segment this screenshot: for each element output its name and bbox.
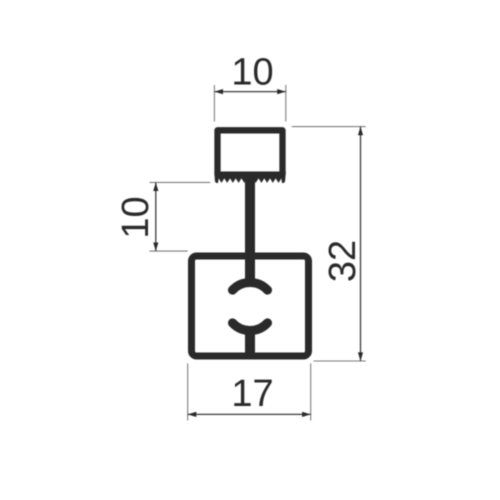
dimension 10 top: extension line right bbox=[285, 85, 287, 122]
dimension 10 left: extension line top bbox=[150, 181, 211, 183]
screw channel upper arc bbox=[232, 283, 267, 291]
dimension 10 left: dimension line bbox=[155, 182, 157, 251]
svg-text:32: 32 bbox=[322, 240, 364, 282]
svg-text:17: 17 bbox=[231, 373, 273, 415]
screw channel lower arc bbox=[232, 323, 267, 331]
dimension 10 top: right arrow bbox=[277, 89, 286, 94]
dimension 10 top: left arrow bbox=[214, 89, 223, 94]
dimension 17 bottom: extension line left bbox=[187, 363, 189, 420]
dimension 17 bottom: right arrow bbox=[302, 412, 311, 417]
bottom box bbox=[192, 256, 309, 356]
svg-text:10: 10 bbox=[231, 52, 273, 94]
dimension 17 bottom: extension line right bbox=[310, 363, 312, 420]
dimension 32 right: bottom arrow bbox=[358, 352, 363, 361]
dimension 17 bottom: dimension line bbox=[188, 413, 311, 415]
dimension 32 right: extension line bottom bbox=[314, 360, 366, 362]
svg-text:10: 10 bbox=[115, 196, 157, 238]
dimension 10 top: extension line left bbox=[213, 85, 215, 122]
lower stem bbox=[245, 326, 255, 356]
teeth under top box bbox=[214, 172, 285, 183]
dimension 32 right: dimension line bbox=[360, 127, 362, 361]
dimension 10 left: bottom arrow bbox=[153, 243, 158, 252]
dimension 17 bottom: left arrow bbox=[188, 412, 197, 417]
dimension 10 left: extension line bottom bbox=[150, 250, 188, 252]
top box bbox=[218, 130, 283, 175]
upper stem bbox=[245, 173, 255, 287]
dimension 32 right: top arrow bbox=[358, 127, 363, 136]
dimension 10 top: dimension line bbox=[214, 91, 285, 93]
dimension 32 right: extension line top bbox=[292, 126, 366, 128]
dimension 10 left: top arrow bbox=[153, 182, 158, 191]
